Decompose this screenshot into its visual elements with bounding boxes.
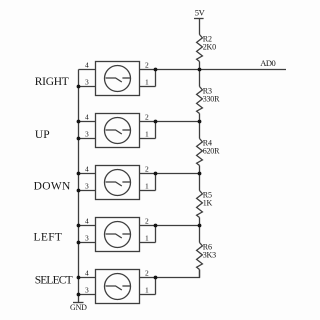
pin 2 label S3	[145, 165, 149, 174]
wire R5 top lead from node	[199, 226, 201, 243]
wire left ground rail	[78, 70, 80, 303]
pin 3 label S2	[85, 130, 89, 139]
label R6 value 3K3	[203, 243, 216, 260]
pin 1 label S1	[145, 78, 149, 87]
svg-text:2: 2	[145, 269, 149, 278]
svg-text:4: 4	[85, 217, 89, 226]
label R2 value 2K0	[203, 35, 216, 52]
wire S2 pin 2 stub	[140, 121, 156, 123]
svg-text:2: 2	[145, 217, 149, 226]
svg-text:LEFT: LEFT	[34, 232, 63, 244]
wire S5 right rail pins 2-1	[155, 278, 157, 295]
wire S3 pin 1 stub	[140, 190, 156, 192]
node AD0 label	[260, 58, 275, 68]
svg-text:1: 1	[145, 234, 149, 243]
svg-text:AD0: AD0	[260, 58, 275, 68]
wire S2 right rail pins 2-1	[155, 122, 157, 139]
push button S1 RIGHT	[96, 62, 140, 96]
junction S3 pin2 right rail	[154, 172, 158, 176]
junction S1 pin3 left rail	[77, 85, 81, 89]
pin 2 label S2	[145, 113, 149, 122]
wire S2 pin 4 stub	[79, 121, 96, 123]
junction S2 pin3 left rail	[77, 137, 81, 141]
wire S2 pin 1 stub	[140, 138, 156, 140]
label R3 value 330R	[203, 87, 220, 104]
wire S4 pin 2 stub	[140, 225, 156, 227]
wire 5V to R2	[199, 19, 201, 35]
svg-text:4: 4	[85, 269, 89, 278]
junction S4 pin2 right rail	[154, 224, 158, 228]
wire S2 pin2 to main rail	[156, 121, 200, 123]
wire net AD0	[156, 69, 287, 71]
wire S5 pin 3 stub	[79, 294, 96, 296]
wire R3 top lead from node	[199, 122, 201, 139]
junction S5 pin3 left rail	[77, 293, 81, 297]
label SELECT	[35, 275, 73, 287]
svg-text:2: 2	[145, 113, 149, 122]
junction S3 pin4 left rail	[77, 172, 81, 176]
pin 3 label S4	[85, 234, 89, 243]
wire R2 bottom lead	[199, 62, 201, 70]
junction main rail node row 2	[198, 120, 202, 124]
push button S5 SELECT	[96, 270, 140, 304]
wire S4 pin 3 stub	[79, 242, 96, 244]
junction S2 pin4 left rail	[77, 120, 81, 124]
junction main rail node row 4	[198, 224, 202, 228]
svg-text:2: 2	[145, 165, 149, 174]
wire S3 pin 4 stub	[79, 173, 96, 175]
svg-text:1: 1	[145, 182, 149, 191]
svg-text:SELECT: SELECT	[35, 275, 73, 287]
junction S5 pin4 left rail	[77, 276, 81, 280]
wire R5 bottom lead	[199, 218, 201, 226]
pin 1 label S5	[145, 286, 149, 295]
label LEFT	[34, 232, 63, 244]
junction main rail node row 1	[198, 68, 202, 72]
pin 4 label S3	[85, 165, 89, 174]
svg-text:3K3: 3K3	[203, 251, 216, 260]
wire R6 to SELECT pin2	[156, 270, 200, 278]
svg-text:5V: 5V	[195, 8, 206, 18]
svg-text:DOWN: DOWN	[34, 181, 71, 193]
svg-text:620R: 620R	[203, 147, 220, 156]
wire S4 pin 1 stub	[140, 242, 156, 244]
wire S4 pin 4 stub	[79, 225, 96, 227]
svg-text:RIGHT: RIGHT	[35, 76, 69, 88]
svg-text:2: 2	[145, 61, 149, 70]
wire S3 pin 3 stub	[79, 190, 96, 192]
junction S4 pin4 left rail	[77, 224, 81, 228]
svg-text:3: 3	[85, 182, 89, 191]
junction S3 pin3 left rail	[77, 189, 81, 193]
svg-text:3: 3	[85, 130, 89, 139]
wire R4 top lead from node	[199, 174, 201, 191]
resistor R6	[197, 243, 203, 270]
pin 1 label S3	[145, 182, 149, 191]
wire R3 bottom lead	[199, 114, 201, 122]
svg-text:1: 1	[145, 78, 149, 87]
wire S2 pin 3 stub	[79, 138, 96, 140]
push button S3 DOWN	[96, 166, 140, 200]
resistor R4	[197, 139, 203, 166]
svg-text:2K0: 2K0	[203, 43, 216, 52]
push button S4 LEFT	[96, 218, 140, 252]
pin 4 label S2	[85, 113, 89, 122]
junction S2 pin2 right rail	[154, 120, 158, 124]
label UP	[35, 129, 50, 141]
wire S5 pin 4 stub	[79, 277, 96, 279]
wire S5 pin 1 stub	[140, 294, 156, 296]
pin 4 label S4	[85, 217, 89, 226]
pin 2 label S1	[145, 61, 149, 70]
svg-text:330R: 330R	[203, 95, 220, 104]
ground	[70, 303, 87, 313]
svg-text:4: 4	[85, 61, 89, 70]
power symbol 5V	[194, 8, 206, 19]
wire S1 pin 3 stub	[79, 86, 96, 88]
junction S5 pin2 right rail	[154, 276, 158, 280]
svg-text:3: 3	[85, 286, 89, 295]
pin 1 label S4	[145, 234, 149, 243]
resistor R2	[197, 35, 203, 62]
wire R6 bottom lead	[199, 270, 201, 278]
wire R2 top lead from node	[199, 70, 201, 87]
svg-text:3: 3	[85, 78, 89, 87]
svg-text:4: 4	[85, 113, 89, 122]
junction S4 pin3 left rail	[77, 241, 81, 245]
pin 4 label S5	[85, 269, 89, 278]
svg-text:1: 1	[145, 286, 149, 295]
svg-text:UP: UP	[35, 129, 50, 141]
wire S1 right rail pins 2-1	[155, 70, 157, 87]
pin 1 label S2	[145, 130, 149, 139]
push button S2 UP	[96, 114, 140, 148]
wire S1 pin 1 stub	[140, 86, 156, 88]
label RIGHT	[35, 76, 69, 88]
pin 3 label S3	[85, 182, 89, 191]
label R4 value 620R	[203, 139, 220, 156]
wire S1 pin 2 stub	[140, 69, 156, 71]
wire S4 pin2 to main rail	[156, 225, 200, 227]
wire R4 bottom lead	[199, 166, 201, 174]
resistor R5	[197, 191, 203, 218]
svg-text:GND: GND	[70, 303, 87, 312]
pin 3 label S1	[85, 78, 89, 87]
pin 2 label S5	[145, 269, 149, 278]
pin 3 label S5	[85, 286, 89, 295]
wire S3 pin2 to main rail	[156, 173, 200, 175]
wire S1 pin 4 stub	[79, 69, 96, 71]
junction S1 pin2 right rail	[154, 68, 158, 72]
junction main rail node row 3	[198, 172, 202, 176]
svg-text:1: 1	[145, 130, 149, 139]
resistor R3	[197, 87, 203, 114]
wire S5 pin 2 stub	[140, 277, 156, 279]
label DOWN	[34, 181, 71, 193]
label R5 value 1K	[203, 191, 213, 208]
svg-text:4: 4	[85, 165, 89, 174]
wire S4 right rail pins 2-1	[155, 226, 157, 243]
pin 4 label S1	[85, 61, 89, 70]
pin 2 label S4	[145, 217, 149, 226]
wire S3 right rail pins 2-1	[155, 174, 157, 191]
svg-text:1K: 1K	[203, 199, 213, 208]
wire S3 pin 2 stub	[140, 173, 156, 175]
svg-text:3: 3	[85, 234, 89, 243]
